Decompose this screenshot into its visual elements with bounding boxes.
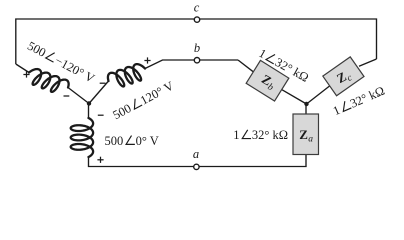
label Za inside box <box>299 127 313 145</box>
inductor winding 1: source 500 angle -120 V <box>29 69 69 92</box>
wire Za bottom, bottom bus to left riser (line a) <box>89 155 307 167</box>
svg-text:c: c <box>194 1 200 15</box>
wire source neutral down into winding 3 <box>88 104 90 119</box>
terminal b open circle <box>194 58 199 63</box>
wire source neutral to winding 2 <box>89 81 109 104</box>
wire winding2 to terminal b bus <box>145 60 238 69</box>
svg-text:a: a <box>308 135 313 145</box>
svg-text:a: a <box>193 147 199 161</box>
polarity minus winding 3 <box>98 114 104 116</box>
node source neutral junction dot <box>87 101 91 105</box>
svg-text:1: 1 <box>331 103 342 118</box>
label source value 500 angle 120 V <box>110 79 176 123</box>
polarity minus winding 1 <box>64 95 70 97</box>
terminal a open circle <box>194 164 199 169</box>
wire top bus: left corner, top run to right corner, right drop (line c) <box>16 19 377 64</box>
svg-text:32° kΩ: 32° kΩ <box>252 128 288 142</box>
inductor winding 2: source 500 angle 120 V <box>108 64 145 86</box>
svg-text:500: 500 <box>105 134 124 148</box>
svg-text:500: 500 <box>110 101 133 122</box>
svg-text:Z: Z <box>299 127 308 142</box>
svg-text:b: b <box>194 41 200 55</box>
inductor winding 3: source 500 angle 0 V <box>71 118 93 157</box>
wire b bus diagonal into Zb <box>238 60 253 72</box>
polarity plus winding 1 <box>23 74 29 76</box>
node load neutral junction dot <box>304 102 308 106</box>
svg-text:1: 1 <box>233 128 239 142</box>
label Zc inside box <box>334 66 355 88</box>
label Zb inside box <box>258 71 279 93</box>
polarity plus winding 3 <box>97 159 103 161</box>
wire Zc to load neutral <box>307 86 330 104</box>
wire left diagonal into winding 1 <box>16 64 29 73</box>
svg-text:32° kΩ: 32° kΩ <box>348 84 387 111</box>
label source value 500 angle 0 V <box>105 134 159 148</box>
label impedance value Za <box>233 128 288 142</box>
impedance box Za <box>293 114 319 155</box>
terminal c open circle <box>194 17 199 22</box>
svg-text:120° V: 120° V <box>138 79 176 108</box>
wire Zb to load neutral <box>282 90 307 104</box>
svg-text:0° V: 0° V <box>136 134 159 148</box>
label impedance value Zc <box>331 84 387 119</box>
svg-text:500: 500 <box>25 39 48 60</box>
wire load neutral down into Za <box>305 104 307 114</box>
wire winding1 to source neutral <box>68 88 89 104</box>
impedance box Zb <box>246 60 289 101</box>
label impedance value Zb <box>256 46 311 85</box>
polarity minus winding 2 <box>100 82 106 84</box>
wire right drop diagonal into Zc <box>359 59 377 66</box>
polarity plus winding 2 <box>144 60 150 62</box>
label source value 500 angle -120 V <box>25 39 97 86</box>
impedance box Zc <box>323 57 364 96</box>
